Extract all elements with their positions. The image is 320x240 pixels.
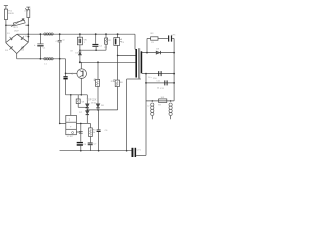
svg-text:D4: D4 — [21, 49, 25, 51]
svg-text:1N4?: 1N4? — [14, 30, 20, 32]
bias chain — [117, 34, 119, 38]
svg-text:C1: C1 — [43, 48, 47, 50]
svg-text:R2: R2 — [108, 40, 111, 42]
svg-text:C8: C8 — [83, 144, 87, 146]
control bypass chain — [65, 59, 67, 76]
thermistor RT1 — [27, 10, 30, 18]
rail corner to transformer — [134, 34, 136, 49]
TVS VR1 — [79, 34, 81, 37]
electrolytic C3 — [114, 38, 120, 46]
junction (28.4,36.6) — [28, 36, 30, 38]
svg-text:-: - — [68, 132, 69, 135]
svg-text:1M: 1M — [104, 47, 107, 49]
svg-text:L2: L2 — [147, 106, 150, 108]
snubber R3 — [146, 39, 148, 53]
wire to opto — [70, 95, 72, 116]
AC input terminal N tick — [26, 6, 30, 8]
inline cap CB — [164, 80, 165, 85]
diode D2 upper-right — [21, 37, 24, 39]
AC input terminal L tick — [4, 5, 8, 7]
resistor R8 — [95, 79, 99, 86]
junction (170.6,100.9) — [170, 100, 172, 102]
svg-text:4: 4 — [24, 11, 26, 13]
svg-text:TOP 22X: TOP 22X — [87, 98, 97, 101]
svg-text:+: + — [34, 44, 36, 47]
junction (59.7,123.4) — [59, 123, 61, 125]
diode D8 chain — [97, 62, 99, 79]
svg-text:1: 1 — [84, 42, 86, 44]
wire — [5, 20, 7, 26]
diode D3 lower-left — [10, 46, 12, 49]
wire — [5, 6, 7, 10]
junction (126.6,150.7) — [126, 150, 128, 152]
diode D6 — [86, 95, 88, 104]
junction (5.9,25.2) — [5, 24, 7, 26]
inductor L2 — [151, 103, 154, 116]
Y-cap CY1 — [132, 148, 134, 157]
diode D7 — [86, 111, 89, 114]
output line 2 — [146, 82, 174, 84]
svg-text:R0JB: R0JB — [8, 13, 14, 15]
junction (59.7,34.2) — [59, 33, 61, 35]
svg-text:C3: C3 — [121, 42, 125, 44]
junction (98.0,62.3) — [97, 61, 99, 63]
svg-text:C9: C9 — [151, 42, 155, 44]
svg-text:C7: C7 — [94, 144, 98, 146]
resistor R5 — [89, 123, 91, 128]
secondary return — [127, 78, 141, 80]
transformer T1 — [135, 49, 137, 78]
junction (40.4,58.8) — [40, 58, 42, 60]
junction (174.1,82.9) — [173, 82, 175, 84]
resistor R2 — [105, 34, 107, 38]
svg-text:F01: F01 — [8, 11, 13, 13]
secondary ground return — [136, 154, 146, 156]
svg-text:D5: D5 — [75, 53, 78, 55]
svg-text:L1: L1 — [44, 63, 47, 65]
secondary junction vertical — [145, 74, 147, 156]
svg-text:C2: C2 — [99, 45, 103, 47]
junction (59.7,58.8) — [59, 58, 61, 60]
bypass cap C5 — [63, 76, 67, 77]
fuse F1 — [4, 9, 7, 19]
junction (146.0,82.9) — [145, 82, 147, 84]
output rail vertical — [173, 53, 175, 101]
inductor L3 — [169, 103, 172, 116]
optocoupler U2 — [66, 115, 77, 134]
svg-text:1n: 1n — [62, 40, 65, 42]
clamp node wire — [80, 49, 106, 51]
output line 3 — [146, 100, 174, 102]
svg-text:5R: 5R — [82, 101, 85, 103]
svg-text:D8: D8 — [101, 105, 105, 107]
svg-text:CY1: CY1 — [137, 149, 142, 151]
svg-text:R6: R6 — [120, 82, 124, 84]
output line 1 — [142, 73, 174, 75]
varistor line — [6, 24, 13, 26]
svg-text:C6: C6 — [105, 130, 109, 132]
junction (80.8,150.7) — [80, 150, 82, 152]
svg-text:CP1: CP1 — [172, 34, 177, 36]
junction (28.3,34.2) — [28, 33, 30, 35]
junction (117.6,34.2) — [117, 33, 119, 35]
source return line — [66, 94, 88, 96]
junction (95.7,34.2) — [95, 33, 97, 35]
junction (80.8,123.4) — [80, 123, 82, 125]
svg-text:RV1: RV1 — [14, 27, 19, 29]
svg-text:+(: +( — [71, 72, 73, 75]
primary return rail — [17, 58, 66, 60]
junction (87.3,109.9) — [87, 109, 89, 111]
svg-text:1N 41: 1N 41 — [91, 102, 98, 104]
electrolytic C8 — [80, 123, 82, 141]
snubber cap C9 — [168, 35, 169, 41]
bias line — [118, 54, 136, 56]
junction (40.4,34.2) — [40, 33, 42, 35]
choke L1 lower winding — [44, 58, 53, 60]
small cap C4 — [59, 34, 61, 40]
junction (146.0,73.6) — [145, 73, 147, 75]
bulk cap C1 — [39, 34, 41, 44]
svg-text:18: 18 — [70, 50, 73, 52]
svg-text:C10: C10 — [153, 78, 158, 80]
svg-text:+: + — [121, 38, 123, 40]
junction (147.0,52.6) — [146, 52, 148, 54]
cap C6 — [98, 110, 100, 129]
diode D1 upper-left — [11, 38, 13, 40]
cap C7 — [88, 143, 93, 144]
junction (174.1,52.6) — [173, 52, 175, 54]
junction (152.3,100.9) — [152, 100, 154, 102]
opto feed line — [60, 122, 66, 124]
varistor RV1 — [13, 20, 25, 26]
junction (96.1,50.2) — [95, 49, 97, 51]
control feed line — [87, 109, 117, 111]
optocoupler internal glyphs — [68, 118, 72, 135]
drain line — [80, 61, 136, 63]
svg-text:U2 817: U2 817 — [67, 136, 74, 138]
output diode D9 line — [142, 52, 174, 54]
resistor R7 — [159, 99, 167, 103]
svg-text:D3: D3 — [5, 50, 9, 52]
junction (81.3,94.8) — [81, 94, 83, 96]
wire — [27, 25, 29, 42]
inline cap CA — [158, 71, 159, 76]
svg-text:C11: C11 — [160, 88, 164, 90]
wire — [27, 7, 29, 10]
diode D4 lower-right — [22, 47, 24, 49]
bridge bottom to rail — [16, 54, 18, 59]
junction (106.0,34.2) — [105, 33, 107, 35]
junction (117.6,55.4) — [117, 55, 119, 57]
wire — [27, 18, 29, 26]
svg-text:2: 2 — [29, 9, 31, 11]
junction (174.1,73.6) — [173, 73, 175, 75]
svg-text:D1: D1 — [7, 33, 10, 35]
svg-text:D9: D9 — [156, 49, 160, 51]
junction (65.5,73.3) — [65, 73, 67, 75]
film cap C2 — [95, 34, 97, 44]
resistor R6 — [115, 80, 119, 86]
junction (79.9,34.2) — [79, 33, 81, 35]
svg-text:6k: 6k — [93, 132, 96, 134]
junction (28.3,25.2) — [28, 24, 30, 26]
tiny labels — [5, 9, 176, 152]
junction (98.6,150.7) — [98, 150, 100, 152]
TOPSwitch U1 — [77, 69, 87, 79]
bridge rectifier D1-D4 diamond — [6, 34, 17, 42]
svg-text:C11: C11 — [156, 81, 160, 83]
svg-text:D7: D7 — [79, 112, 83, 114]
svg-text:R7: R7 — [158, 105, 161, 107]
bottom rail — [59, 150, 61, 152]
junction (70.8,94.8) — [70, 94, 72, 96]
resistor R4 — [77, 95, 79, 99]
wire — [59, 59, 61, 124]
top rail — [17, 33, 135, 35]
opto pin stub — [76, 131, 80, 133]
junction (98.0,109.9) — [97, 109, 99, 111]
junction (79.9,50.2) — [79, 49, 81, 51]
svg-text:2: 2 — [69, 118, 71, 122]
junction (79.9,62.3) — [79, 61, 81, 63]
svg-text:R3: R3 — [151, 33, 155, 35]
choke L1 upper winding — [44, 33, 53, 35]
clamp diode D5 — [79, 51, 82, 53]
svg-text:+: + — [70, 125, 72, 128]
wire — [5, 25, 7, 42]
